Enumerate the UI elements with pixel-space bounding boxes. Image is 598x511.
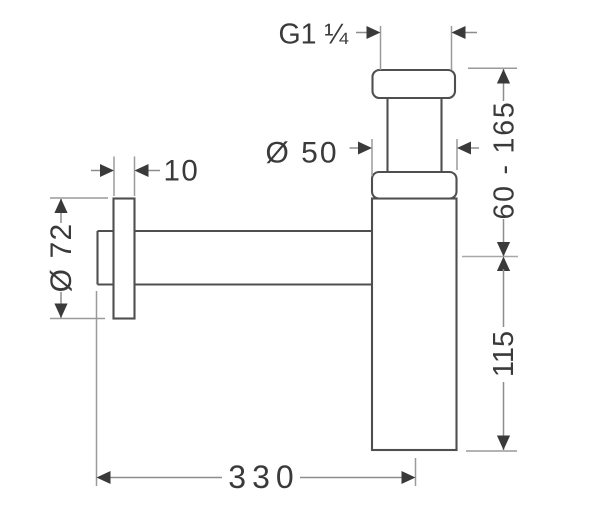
dim line D72 lower (60, 292, 62, 318)
arrow 330 left (97, 471, 111, 484)
arrow D72 up (54, 199, 67, 214)
ext line 330 left (96, 291, 98, 486)
svg-text:60 - 165: 60 - 165 (489, 101, 521, 220)
dim line 330 right (300, 477, 403, 479)
arrow G1 right (452, 26, 478, 39)
arrow 115 down (497, 436, 510, 451)
svg-text:Ø 50: Ø 50 (266, 137, 339, 170)
ext line 115 bottom (466, 450, 517, 452)
trap body (372, 199, 457, 451)
top flange (373, 70, 456, 98)
svg-text:10: 10 (164, 155, 200, 188)
ext line D50 left (371, 139, 373, 176)
svg-text:330: 330 (228, 459, 299, 495)
arrow 10 left (91, 164, 114, 177)
ext line mid axis (462, 256, 518, 258)
svg-text:Ø 72: Ø 72 (45, 223, 78, 293)
svg-text:115: 115 (488, 331, 520, 377)
arrow D72 down (54, 304, 67, 319)
ext line G1 left (380, 26, 382, 70)
dim line 115 lower (503, 382, 505, 450)
ext line D72 top (50, 197, 108, 199)
ext line 10 right (134, 157, 136, 197)
escutcheon (114, 199, 135, 319)
svg-text:G1 ¼: G1 ¼ (279, 19, 350, 51)
dim line 60-165 lower (503, 219, 505, 256)
wall pipe (98, 231, 373, 285)
arrow 330 right (402, 471, 416, 484)
dim line D72 upper (60, 199, 62, 223)
arrow 60-165 down (497, 242, 510, 257)
dim line 330 left (109, 477, 222, 479)
riser pipe (388, 97, 442, 173)
arrow G1 left (356, 26, 381, 39)
ext line 60-165 top (468, 67, 517, 69)
arrow D50 left (350, 142, 373, 155)
arrow 60-165 up (497, 69, 510, 84)
ext line G1 right (451, 26, 453, 70)
ext line 10 left (113, 157, 115, 197)
dim line 60-165 upper (503, 69, 505, 101)
ext line 330 right (415, 458, 417, 486)
arrow 10 right (135, 164, 161, 177)
ext line D50 right (456, 139, 458, 170)
dim line 115 upper (503, 269, 505, 327)
lower flange (372, 172, 457, 199)
arrow D50 right (457, 142, 479, 155)
ext line D72 bottom (50, 318, 105, 320)
arrow 115 up (497, 257, 510, 272)
